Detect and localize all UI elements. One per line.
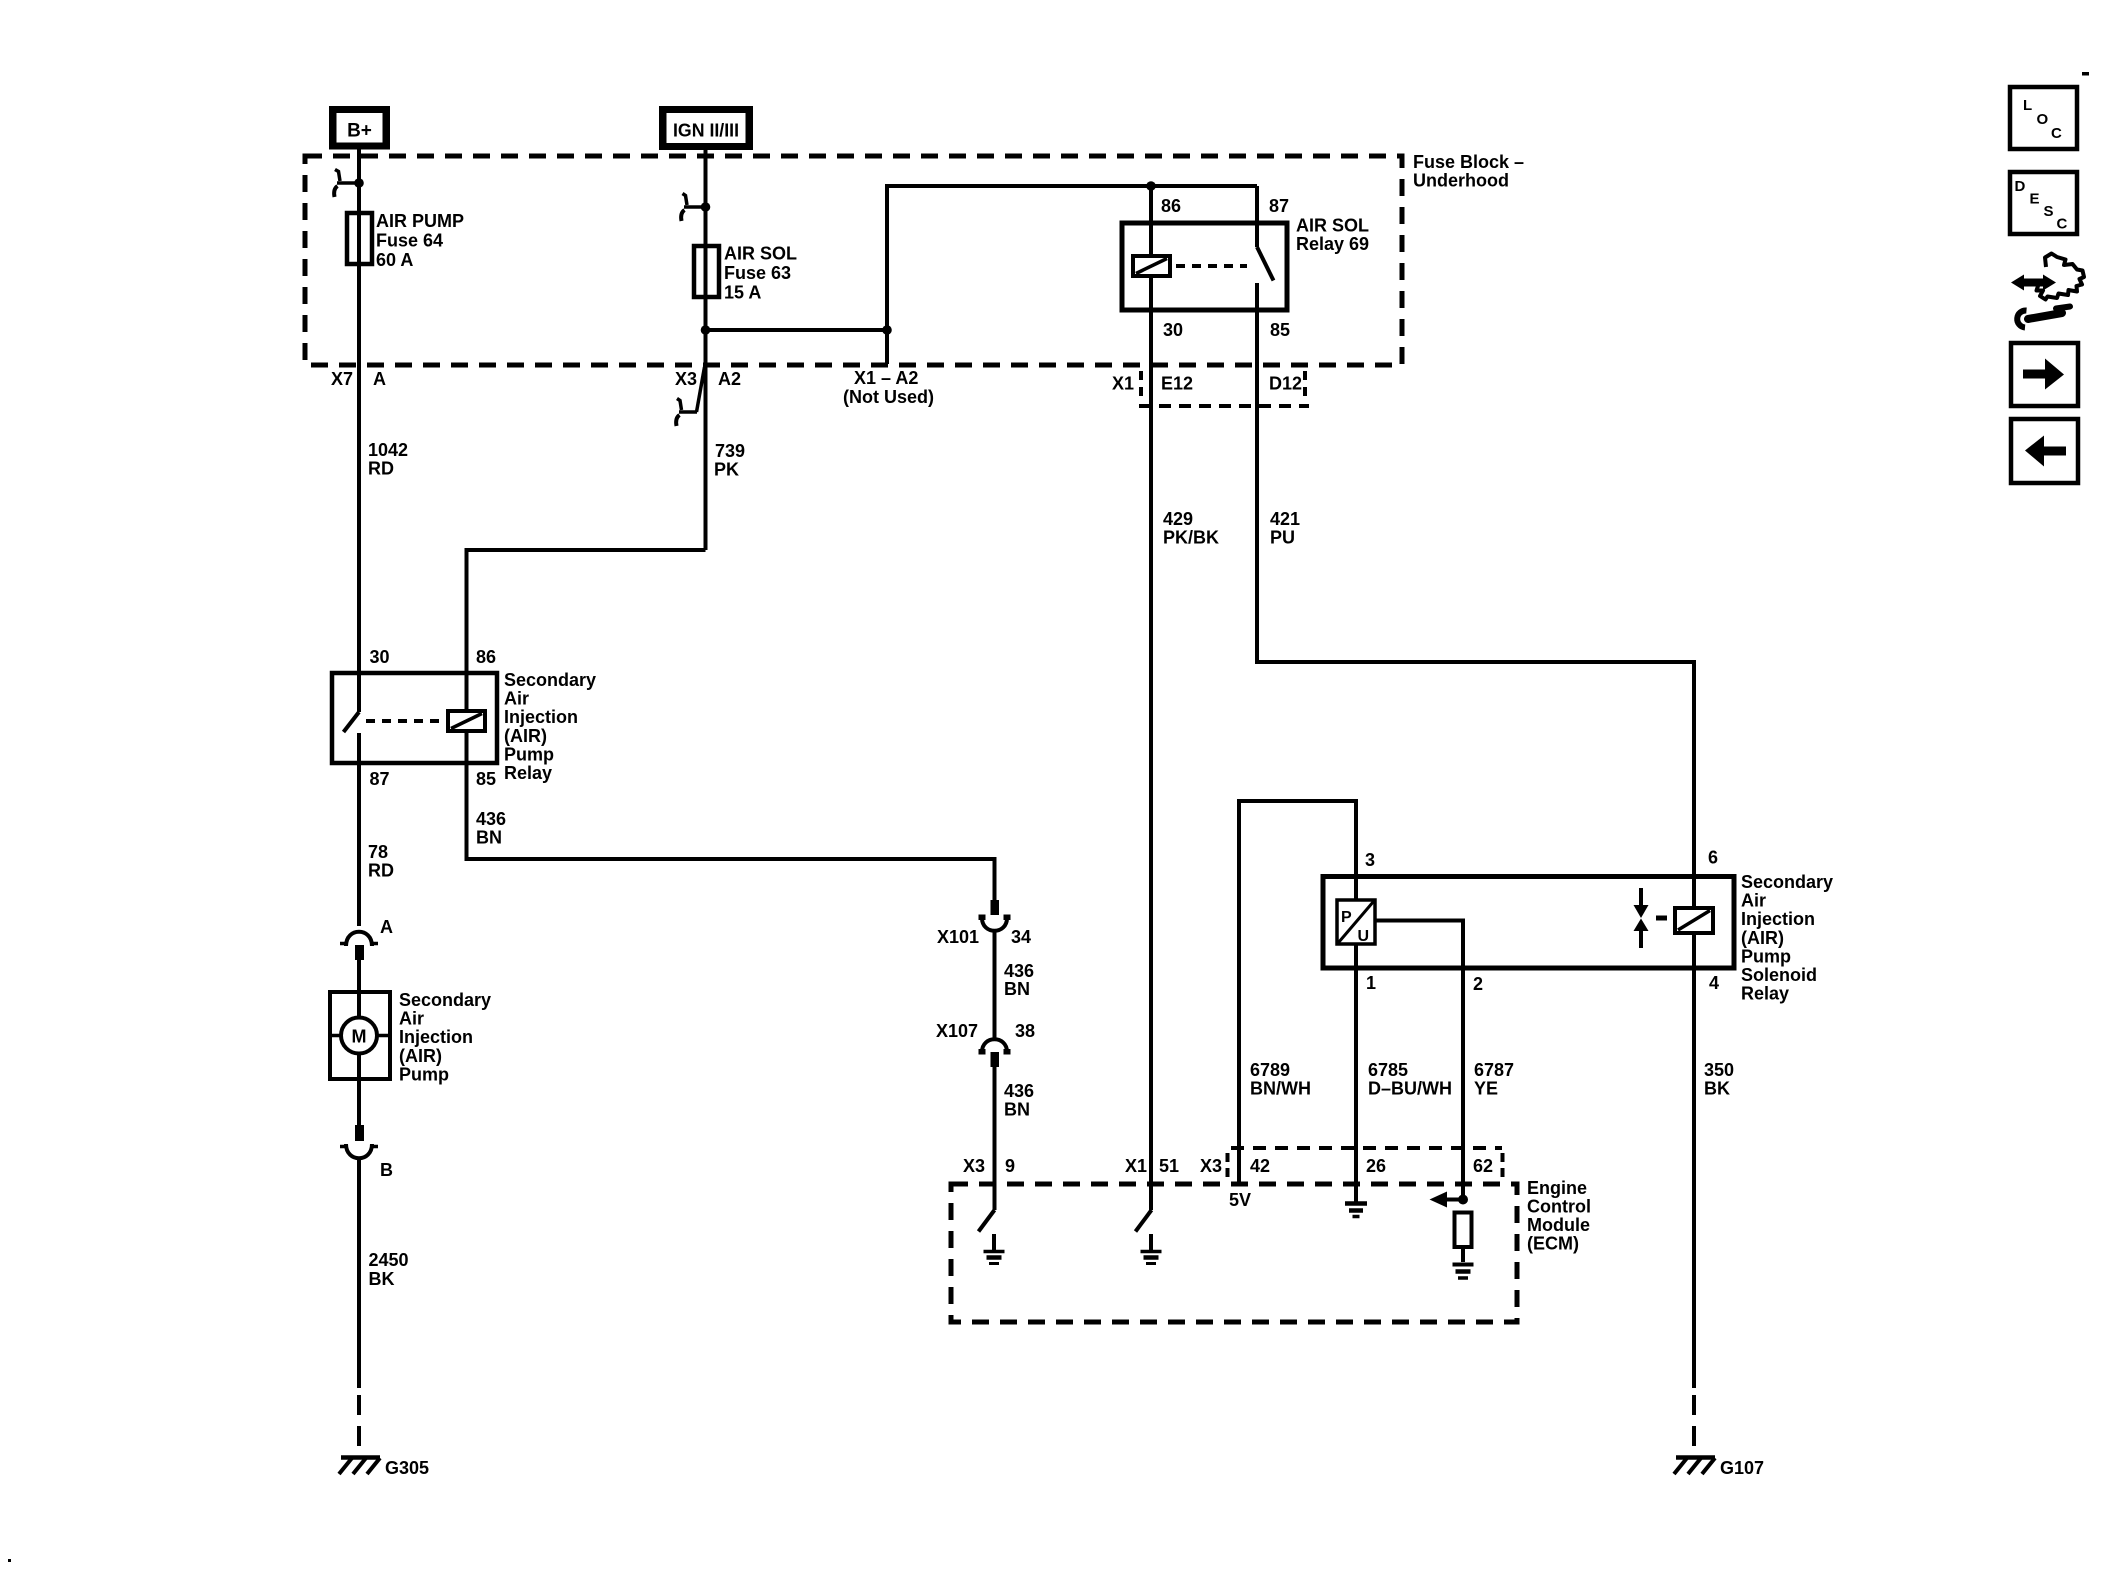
svg-text:436: 436 [1004,961,1034,981]
svg-text:PK: PK [714,460,739,480]
svg-text:Air: Air [399,1009,424,1029]
svg-text:G305: G305 [385,1458,429,1478]
svg-text:Underhood: Underhood [1413,171,1509,191]
connector X101 (pin and arc) [937,900,1031,947]
relay K69 coil [1133,256,1170,276]
icon next arrow button [2011,343,2078,406]
svg-text:(Not Used): (Not Used) [843,387,934,407]
icon DESC button [2010,172,2077,234]
junction dot IGN fuse feed [701,202,711,212]
svg-text:6789: 6789 [1250,1060,1290,1080]
wire IGN branch down to pump relay pin 86 [467,550,706,673]
relay K69 pin 30 lead (coil to bottom) [1149,276,1153,310]
connector pass-through jog at X3 A2 [676,367,704,426]
ground G305 [339,1458,429,1479]
svg-text:BK: BK [1704,1079,1730,1099]
connector X3 (42 26 62) dashed outline [1228,1148,1503,1181]
svg-text:Relay: Relay [504,763,552,783]
Fuse Block - Underhood (dashed enclosure) [305,152,1524,365]
wire 436 BN between X101 and X107 [993,932,997,1040]
svg-text:86: 86 [476,647,496,667]
svg-text:X1: X1 [1125,1156,1147,1176]
connector B at pump (pin and arc) [340,1125,393,1180]
svg-text:Injection: Injection [399,1027,473,1047]
earth ground inside ECM under resistor [1453,1265,1474,1279]
clip tap symbol at IGN fuse feed [681,194,705,222]
ECM name label [1527,1178,1591,1254]
wire 436 BN from X107 to ECM X3-9 [993,1067,997,1210]
connector X1 labels [1112,374,1302,394]
svg-text:5V: 5V [1229,1190,1251,1210]
svg-text:4: 4 [1709,973,1719,993]
svg-text:B: B [380,1160,393,1180]
svg-text:85: 85 [1270,320,1290,340]
svg-text:BN: BN [1004,1100,1030,1120]
svg-text:RD: RD [368,861,394,881]
stray mark top right [2082,72,2089,76]
svg-text:Pump: Pump [504,744,554,764]
svg-text:Fuse 64: Fuse 64 [376,231,443,251]
svg-text:34: 34 [1011,927,1031,947]
fuse F64 (AIR PUMP Fuse 64 60A) [347,213,372,264]
svg-text:AIR SOL: AIR SOL [1296,216,1369,236]
svg-text:62: 62 [1473,1156,1493,1176]
svg-text:U: U [1358,928,1370,945]
wire IGN II/III to junction (739 PK) [704,150,708,550]
relay K1 coil [448,711,485,731]
relay K69 pin 87 lead [1255,186,1259,247]
svg-text:PU: PU [1270,528,1295,548]
svg-text:Control: Control [1527,1197,1591,1217]
svg-text:X7: X7 [331,369,353,389]
relay K2 name label [1741,872,1833,1004]
svg-text:78: 78 [368,842,388,862]
svg-text:Fuse Block –: Fuse Block – [1413,152,1524,172]
svg-text:Fuse 63: Fuse 63 [724,263,791,283]
relay K1 pin 86 lead [465,673,469,711]
svg-text:Pump: Pump [399,1064,449,1084]
svg-text:RD: RD [368,459,394,479]
svg-text:2: 2 [1473,974,1483,994]
node B+ (battery feed box) [329,106,390,150]
svg-text:Injection: Injection [504,707,578,727]
relay K69 fixed contact stub to pin 85 [1255,283,1259,310]
svg-text:86: 86 [1161,196,1181,216]
svg-text:Module: Module [1527,1215,1590,1235]
svg-text:85: 85 [476,769,496,789]
earth ground inside ECM at X1-51 [1141,1252,1162,1264]
svg-text:AIR PUMP: AIR PUMP [376,211,464,231]
svg-text:X107: X107 [936,1021,978,1041]
svg-text:Air: Air [504,689,529,709]
relay K1 name label [504,670,596,783]
relay K2 pin labels [1365,848,1719,995]
svg-text:30: 30 [370,647,390,667]
svg-text:C: C [2051,125,2062,142]
svg-text:(AIR): (AIR) [1741,928,1784,948]
relay K1 (Secondary AIR Pump Relay) box [332,673,497,763]
wire relay K1 pin 87 to pump connector A [357,763,361,926]
wire 2450 BK from connector B to G305 [357,1160,361,1388]
svg-text:(ECM): (ECM) [1527,1234,1579,1254]
relay K2 pin 2 side wire from P/U [1375,921,1463,1197]
svg-text:E: E [2030,191,2040,208]
svg-text:87: 87 [370,769,390,789]
svg-text:B+: B+ [347,121,372,142]
svg-text:Secondary: Secondary [399,990,491,1010]
junction dot at relay 69 coil tap [1146,181,1156,191]
wire stub X1-A2 (Not Used) [885,330,889,364]
svg-text:Engine: Engine [1527,1178,1587,1198]
relay K1 pin labels [370,647,497,789]
svg-text:M: M [352,1027,367,1047]
svg-text:(AIR): (AIR) [504,726,547,746]
relay K2 (Secondary AIR Pump Solenoid Relay) box [1323,877,1734,969]
relay K1 coil-contact dashed link [366,719,448,723]
svg-text:S: S [2044,203,2054,220]
clip tap symbol at B+ fuse feed [334,170,359,198]
relay K69 name label [1296,216,1369,255]
wire 6789 BN/WH from ECM X3-42 to relay K2 pin 3 [1239,801,1356,1186]
relay K69 coil-contact dashed link [1176,264,1247,268]
svg-text:38: 38 [1015,1021,1035,1041]
relay K69 (AIR SOL Relay 69) box [1122,223,1287,310]
resistor inside ECM at pin 62 [1455,1213,1472,1248]
svg-text:X101: X101 [937,927,979,947]
solenoid valve symbol inside relay K2 [1634,888,1668,948]
relay K2 solenoid coil [1675,908,1713,933]
svg-text:1: 1 [1366,973,1376,993]
icon LOC button [2010,87,2077,149]
ECM (Engine Control Module) dashed box [951,1184,1517,1322]
ECM internal contact stub X3-9 [992,1234,996,1250]
junction dot at ECM pin 62 [1458,1195,1468,1205]
wire resistor to earth [1461,1247,1465,1262]
svg-text:1042: 1042 [368,440,408,460]
svg-text:X3: X3 [963,1156,985,1176]
junction dot B+ feed [354,178,364,188]
junction dot on IGN wire at branch to relay 69 [701,325,711,335]
svg-text:60 A: 60 A [376,250,413,270]
svg-text:6785: 6785 [1368,1060,1408,1080]
svg-text:X1 – A2: X1 – A2 [854,368,918,388]
wire 436 BN from relay K1 pin 85 to connector X101 [467,763,995,900]
svg-text:739: 739 [715,441,745,461]
svg-text:AIR SOL: AIR SOL [724,244,797,264]
wire 421 PU from relay 69 pin 85 to solenoid relay pin 6 [1257,310,1694,908]
junction dot at 887,330 [882,325,892,335]
wire branch from IGN wire to AIR SOL relay feed [706,186,1258,330]
svg-text:Secondary: Secondary [504,670,596,690]
svg-text:IGN II/III: IGN II/III [673,121,739,141]
svg-text:9: 9 [1005,1156,1015,1176]
svg-text:X3: X3 [675,369,697,389]
signal arrow inside ECM at pin 62 [1430,1192,1462,1208]
svg-text:Secondary: Secondary [1741,872,1833,892]
icon harness repair (double arrow, outline, wrench) [2011,254,2084,328]
relay K1 switch blade [344,712,360,732]
wire connector A to pump motor [357,960,361,1018]
svg-text:(AIR): (AIR) [399,1046,442,1066]
svg-text:D: D [2015,178,2026,195]
pressure sensor P/U inside relay K2 [1337,900,1375,945]
svg-text:BN/WH: BN/WH [1250,1079,1311,1099]
svg-text:Air: Air [1741,891,1766,911]
svg-text:G107: G107 [1720,1458,1764,1478]
dashed ground lead G107 [1692,1395,1696,1459]
svg-text:26: 26 [1366,1156,1386,1176]
relay K2 pin 4 lead [1692,933,1696,968]
svg-text:15 A: 15 A [724,283,761,303]
svg-text:2450: 2450 [369,1250,409,1270]
svg-text:429: 429 [1163,509,1193,529]
dashed ground lead G305 [357,1395,361,1459]
svg-text:Relay 69: Relay 69 [1296,234,1369,254]
ECM internal switch at X1-51 [1136,1210,1152,1232]
svg-text:A2: A2 [718,369,741,389]
svg-text:421: 421 [1270,509,1300,529]
wire pump motor to connector B [357,1054,361,1126]
icon back arrow button [2011,419,2078,483]
relay K1 pin 85 lead [465,731,469,763]
wire 350 BK from relay K2 pin 4 to G107 [1692,968,1696,1388]
svg-text:PK/BK: PK/BK [1163,528,1219,548]
svg-text:X1: X1 [1112,374,1134,394]
svg-text:Relay: Relay [1741,984,1789,1004]
earth ground inside ECM at X3-9 [984,1252,1005,1264]
svg-text:350: 350 [1704,1060,1734,1080]
stray mark bottom left [8,1559,11,1562]
svg-text:YE: YE [1474,1079,1498,1099]
svg-text:42: 42 [1250,1156,1270,1176]
earth ground inside ECM at pin 26 [1345,1186,1367,1217]
svg-text:E12: E12 [1161,374,1193,394]
svg-text:87: 87 [1269,196,1289,216]
svg-text:3: 3 [1365,850,1375,870]
ECM internal switch at X3-9 [979,1210,995,1232]
wire 429 PK/BK from relay 69 pin 30 to ECM X1-51 [1149,310,1153,1210]
svg-text:Injection: Injection [1741,909,1815,929]
svg-text:Pump: Pump [1741,946,1791,966]
svg-text:436: 436 [476,809,506,829]
relay K69 pin labels [1161,196,1290,340]
svg-text:P: P [1341,909,1352,926]
fuse F63 (AIR SOL Fuse 63 15A) [694,246,719,297]
svg-text:BN: BN [476,828,502,848]
connector X107 (arc and pin) [936,1021,1035,1067]
motor M1 (Secondary AIR Pump) [330,992,390,1079]
relay K1 fixed contact stub to pin 87 [357,733,361,763]
svg-text:O: O [2037,111,2049,128]
svg-text:6: 6 [1708,848,1718,868]
connector A at pump (arc and pin) [340,917,393,960]
connector X1 (E12 D12) dashed outline [1139,371,1309,406]
svg-text:D–BU/WH: D–BU/WH [1368,1079,1452,1099]
svg-text:51: 51 [1159,1156,1179,1176]
svg-text:A: A [380,917,393,937]
relay K69 pin 86 lead [1149,186,1153,256]
svg-text:BN: BN [1004,979,1030,999]
motor M1 name label [399,990,491,1084]
svg-text:C: C [2057,216,2068,233]
svg-text:6787: 6787 [1474,1060,1514,1080]
svg-text:D12: D12 [1269,374,1302,394]
svg-text:A: A [373,369,386,389]
relay K2 pin 1 lead from P/U [1354,944,1358,1202]
svg-text:BK: BK [369,1269,395,1289]
svg-text:Solenoid: Solenoid [1741,965,1817,985]
svg-text:X3: X3 [1200,1156,1222,1176]
ground G107 [1674,1458,1764,1479]
svg-text:L: L [2023,97,2032,114]
wire B+ to AIR pump relay pin 30 (1042 RD) [357,150,361,713]
node IGN II/III (ignition feed box) [659,106,753,150]
svg-text:436: 436 [1004,1081,1034,1101]
svg-text:30: 30 [1163,320,1183,340]
relay K69 switch blade [1257,247,1274,281]
ECM internal contact stub X1-51 [1149,1234,1153,1250]
